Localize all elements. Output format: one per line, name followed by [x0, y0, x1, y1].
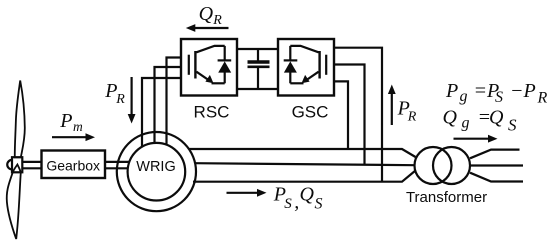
- WRIG outer circle: [117, 132, 196, 211]
- svg-text:WRIG: WRIG: [136, 159, 175, 175]
- svg-text:Pg=PS−PR: Pg=PS−PR: [445, 80, 548, 107]
- wire shaft hub to gearbox bottom: [23, 167, 42, 169]
- GSC diode cathode bar: [284, 59, 298, 61]
- svg-text:PR: PR: [104, 80, 125, 107]
- svg-text:Pm: Pm: [59, 110, 83, 134]
- wire stator middle line to transformer: [195, 163, 414, 165]
- gearbox box: [42, 151, 106, 179]
- arrow Qg grid power (rightward): [454, 135, 498, 143]
- RSC diode triangle: [218, 61, 231, 72]
- wire grid lead bottom: [470, 173, 523, 182]
- GSC diode triangle: [284, 61, 297, 72]
- svg-text:GSC: GSC: [292, 102, 329, 121]
- transformer primary circle: [415, 147, 452, 184]
- svg-text:Qg=QS: Qg=QS: [443, 107, 518, 135]
- wire shaft hub to gearbox top: [23, 161, 42, 163]
- arrow PR grid side (upward): [388, 85, 396, 126]
- GSC IGBT gate bar: [325, 55, 327, 75]
- arrow PS QS stator power (rightward): [227, 189, 267, 197]
- wire shaft gearbox to WRIG top: [105, 161, 130, 163]
- wind turbine lower blade: [7, 165, 21, 240]
- capacitor C dc-link: [248, 49, 270, 89]
- wind turbine upper blade: [15, 81, 25, 158]
- GSC IGBT body bar: [318, 51, 320, 79]
- arrow Pm mechanical power: [52, 133, 95, 141]
- RSC IGBT collector wire: [196, 46, 224, 52]
- RSC IGBT emitter wire: [196, 72, 208, 80]
- wire grid lead middle: [470, 164, 524, 166]
- wire stator bottom line to transformer: [193, 171, 416, 182]
- wire grid lead top: [470, 150, 520, 159]
- svg-text:RSC: RSC: [194, 102, 230, 121]
- wire dc link bottom rail: [237, 88, 278, 90]
- WRIG inner circle: [128, 143, 186, 201]
- GSC IGBT emitter to diode wire: [290, 82, 303, 84]
- wire rotor phase b (middle L): [155, 67, 182, 143]
- wire gsc output top to bottom stator line: [334, 48, 382, 182]
- wire stator top line to transformer: [189, 149, 416, 157]
- wire gsc output middle to middle stator line: [334, 65, 365, 165]
- RSC converter box U1: [181, 39, 237, 96]
- svg-text:PS,QS: PS,QS: [273, 184, 323, 214]
- arrow QR reactive power (leftward): [186, 24, 229, 32]
- GSC IGBT emitter arrowhead: [302, 75, 310, 83]
- svg-text:Gearbox: Gearbox: [46, 157, 100, 173]
- GSC IGBT emitter wire: [306, 72, 318, 80]
- wire rotor phase a (left L): [142, 78, 181, 147]
- RSC IGBT emitter to diode wire: [212, 82, 225, 84]
- wire dc link top rail: [237, 48, 278, 50]
- RSC IGBT gate bar: [188, 55, 190, 75]
- svg-text:PR: PR: [397, 98, 417, 125]
- wind turbine nose cone: [7, 160, 12, 170]
- wire shaft gearbox to WRIG bottom: [105, 167, 129, 169]
- RSC diode cathode bar: [218, 59, 232, 61]
- transformer secondary circle: [433, 147, 470, 184]
- arrow PR rotor power (downward): [128, 77, 136, 124]
- GSC diode cathode wire: [289, 46, 291, 61]
- GSC IGBT collector wire: [290, 46, 318, 52]
- svg-text:QR: QR: [199, 3, 223, 28]
- RSC diode anode wire: [224, 72, 226, 83]
- wind turbine hub: [12, 157, 22, 172]
- RSC IGBT body bar: [194, 51, 196, 79]
- wire rotor phase c (right L): [167, 58, 182, 146]
- wire gsc output bottom to top stator line: [334, 81, 348, 149]
- RSC IGBT emitter arrowhead: [205, 75, 213, 83]
- GSC diode anode wire: [289, 72, 291, 83]
- svg-text:Transformer: Transformer: [406, 189, 487, 206]
- RSC diode cathode wire: [224, 46, 226, 61]
- GSC converter box U2: [278, 39, 334, 96]
